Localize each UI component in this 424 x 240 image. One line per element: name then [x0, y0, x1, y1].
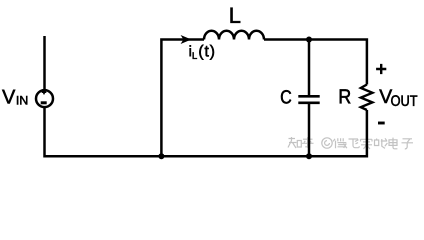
capacitor C plates [298, 96, 319, 103]
label C of capacitor [281, 90, 291, 103]
label V of VIN [2, 90, 15, 104]
voltage source VIN circle [36, 90, 53, 107]
junction node at bottom of middle vertical [158, 153, 164, 159]
minus mark inside source [41, 101, 47, 104]
junction node at bottom of capacitor branch [306, 153, 312, 159]
label IN subscript of VIN [17, 96, 27, 105]
label L of inductor [231, 8, 241, 23]
label (t) of iL(t) [199, 45, 214, 60]
plus sign of VOUT polarity [376, 64, 386, 74]
label V of VOUT [379, 90, 392, 103]
plus mark inside source [42, 90, 47, 95]
arrowhead of iL(t) current arrow [181, 35, 192, 44]
label R of resistor [340, 89, 351, 103]
wire: left branch lower + bottom wire + right branch lower [45, 107, 367, 156]
resistor R zigzag [361, 85, 373, 111]
label OUT subscript of VOUT [391, 95, 417, 106]
label i of iL(t) [190, 45, 191, 56]
wire: top wire right segment + right branch upper [264, 40, 367, 85]
wire: middle vertical + top wire left segment [161, 40, 204, 157]
wire: left branch upper segment (open top end) [43, 36, 46, 90]
label L subscript of iL(t) [193, 52, 197, 59]
minus sign of VOUT polarity [378, 122, 385, 125]
inductor L (4 arcs) [204, 31, 264, 40]
junction node at top of capacitor branch [306, 37, 312, 43]
wire: capacitor branch upper [308, 40, 311, 96]
wire: capacitor branch lower [308, 104, 311, 156]
watermark zhihu pseudo-glyphs [288, 137, 413, 149]
